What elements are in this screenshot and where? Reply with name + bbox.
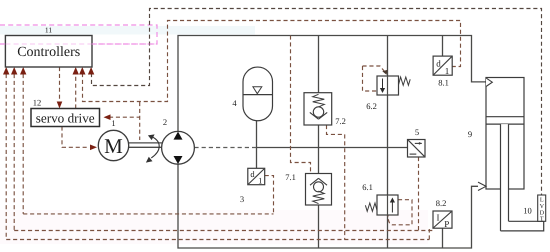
svg-text:1: 1 bbox=[111, 118, 115, 128]
svg-text:M: M bbox=[104, 134, 123, 158]
svg-text:9: 9 bbox=[468, 129, 472, 139]
svg-text:10: 10 bbox=[523, 206, 532, 216]
svg-text:1: 1 bbox=[445, 66, 450, 76]
svg-text:1: 1 bbox=[258, 176, 262, 186]
svg-text:11: 11 bbox=[45, 26, 52, 35]
svg-text:4: 4 bbox=[232, 98, 237, 108]
svg-text:5: 5 bbox=[415, 127, 419, 137]
svg-text:7.1: 7.1 bbox=[285, 172, 296, 182]
svg-text:3: 3 bbox=[240, 194, 244, 204]
svg-text:Controllers: Controllers bbox=[17, 45, 80, 60]
svg-text:8.2: 8.2 bbox=[436, 198, 447, 208]
svg-text:servo drive: servo drive bbox=[36, 111, 95, 126]
svg-text:T: T bbox=[540, 216, 544, 223]
svg-text:P: P bbox=[444, 219, 449, 229]
svg-text:8.1: 8.1 bbox=[438, 78, 449, 88]
svg-text:I: I bbox=[437, 213, 440, 223]
svg-text:7.2: 7.2 bbox=[335, 116, 346, 126]
svg-text:6.2: 6.2 bbox=[366, 101, 377, 111]
svg-text:2: 2 bbox=[163, 117, 167, 127]
svg-text:d: d bbox=[436, 59, 441, 69]
svg-text:12: 12 bbox=[33, 98, 42, 108]
svg-text:6.1: 6.1 bbox=[362, 182, 373, 192]
